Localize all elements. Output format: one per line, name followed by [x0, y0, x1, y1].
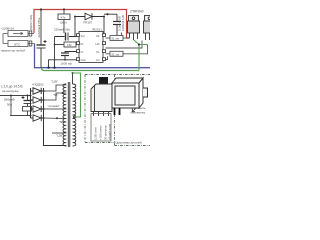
svg-text:с 2,0 до 14,5 В: с 2,0 до 14,5 В	[1, 84, 23, 88]
wire green DC minus bus	[42, 68, 140, 71]
thermistor NTC R2	[3, 34, 35, 47]
wire blue mains neutral rail	[35, 44, 151, 68]
capacitor C5 560uF 50V output	[22, 96, 32, 107]
wire green primary return	[73, 73, 81, 117]
svg-text:Vcc: Vcc	[81, 34, 86, 38]
svg-text:1000пФ 1кВ: 1000пФ 1кВ	[121, 15, 125, 31]
svg-text:Rt: Rt	[81, 42, 84, 46]
svg-text:Vb: Vb	[96, 34, 100, 38]
svg-text:+300 вольт: +300 вольт	[99, 125, 103, 140]
pin name box (pinout inset)	[91, 114, 111, 142]
transformer T1 primary winding	[73, 73, 76, 146]
svg-text:2х220мкФ 250в: 2х220мкФ 250в	[37, 17, 41, 37]
wire taps to transformer secondary	[44, 85, 67, 133]
fuse F1	[3, 31, 34, 37]
diode VD2 rectifier	[31, 88, 67, 146]
resistor R6 gate 51om LO	[106, 45, 148, 60]
svg-text:51 ом: 51 ом	[112, 37, 119, 41]
svg-text:1/2В сети: 1/2В сети	[94, 127, 98, 140]
svg-text:"12В": "12В"	[51, 79, 58, 83]
module arrow mark	[132, 108, 136, 112]
wire Com to green bus	[49, 37, 77, 68]
inset border dash-dot	[85, 75, 150, 146]
svg-text:Цоколевки деталей: Цоколевки деталей	[116, 140, 142, 144]
svg-text:FR107: FR107	[84, 20, 93, 24]
transistor Q2 IRF840 bottom (clipped)	[144, 16, 156, 41]
svg-text:~220В 5А: ~220В 5А	[1, 26, 16, 30]
svg-text:2*IRF840: 2*IRF840	[130, 10, 144, 14]
svg-text:47к: 47к	[61, 15, 66, 19]
junction dot on red rail at C1	[40, 8, 42, 10]
svg-text:Ct: Ct	[81, 50, 84, 54]
svg-text:общий пров: общий пров	[107, 124, 111, 140]
svg-text:перемычку: перемычку	[131, 110, 146, 114]
resistor R3 15k timing	[55, 42, 77, 47]
diode VD3 rectifier	[31, 97, 44, 103]
svg-text:1000 пф: 1000 пф	[61, 61, 73, 65]
capacitor C3 1000pF timing	[61, 52, 77, 61]
svg-text:"5В": "5В"	[53, 93, 58, 97]
svg-text:КД202 (10А): КД202 (10А)	[29, 15, 33, 31]
diode VD4 rectifier	[31, 106, 44, 112]
svg-text:50в: 50в	[7, 102, 12, 106]
svg-text:Com: Com	[81, 58, 87, 62]
module mains pins	[115, 108, 120, 115]
transistor Q1 IRF840 top	[128, 16, 140, 41]
svg-text:установить: установить	[131, 106, 146, 110]
transformer T1 secondary winding	[63, 84, 66, 146]
resistor R5 gate 51om HO	[106, 36, 130, 41]
svg-text:220мкФ 16в: 220мкФ 16в	[54, 28, 70, 32]
svg-text:IR2151: IR2151	[92, 27, 102, 31]
svg-text:51 ом: 51 ом	[112, 52, 119, 56]
electronic transformer module 3D drawing	[112, 78, 148, 108]
wire +310V red rail	[34, 10, 130, 39]
diode VD5 rectifier	[31, 115, 44, 121]
svg-text:LO: LO	[96, 58, 100, 62]
svg-text:HO: HO	[96, 42, 100, 46]
svg-text:(2Вт): (2Вт)	[60, 20, 67, 24]
svg-text:"сетевая": "сетевая"	[48, 104, 60, 108]
resistor R1 47k	[63, 8, 65, 10]
capacitor C1 2x220uF 250V electrolytic	[37, 10, 47, 68]
wire Vs to half-bridge midpoint	[106, 41, 143, 49]
wire output plus rail	[0, 96, 31, 116]
svg-text:на нагрузке: на нагрузке	[2, 89, 19, 93]
capacitor C4 snubber in red loop	[106, 13, 108, 15]
connector X1	[29, 31, 32, 46]
diode VD1 FR107 bootstrap	[74, 16, 76, 18]
svg-text:термистор любой: термистор любой	[1, 49, 26, 53]
svg-text:"12В": "12В"	[56, 134, 63, 138]
transistor package drawing (pinout inset)	[91, 77, 112, 116]
svg-text:NTC: NTC	[14, 42, 21, 46]
svg-text:560мкФ: 560мкФ	[4, 98, 15, 102]
pin labels U1	[81, 34, 100, 62]
transformer T1 core	[68, 82, 70, 147]
resistor R7 bleeder	[23, 107, 32, 116]
svg-text:4*КД202: 4*КД202	[32, 82, 44, 86]
svg-text:15к: 15к	[67, 43, 72, 47]
wire green midpoint to transformer	[134, 40, 148, 71]
